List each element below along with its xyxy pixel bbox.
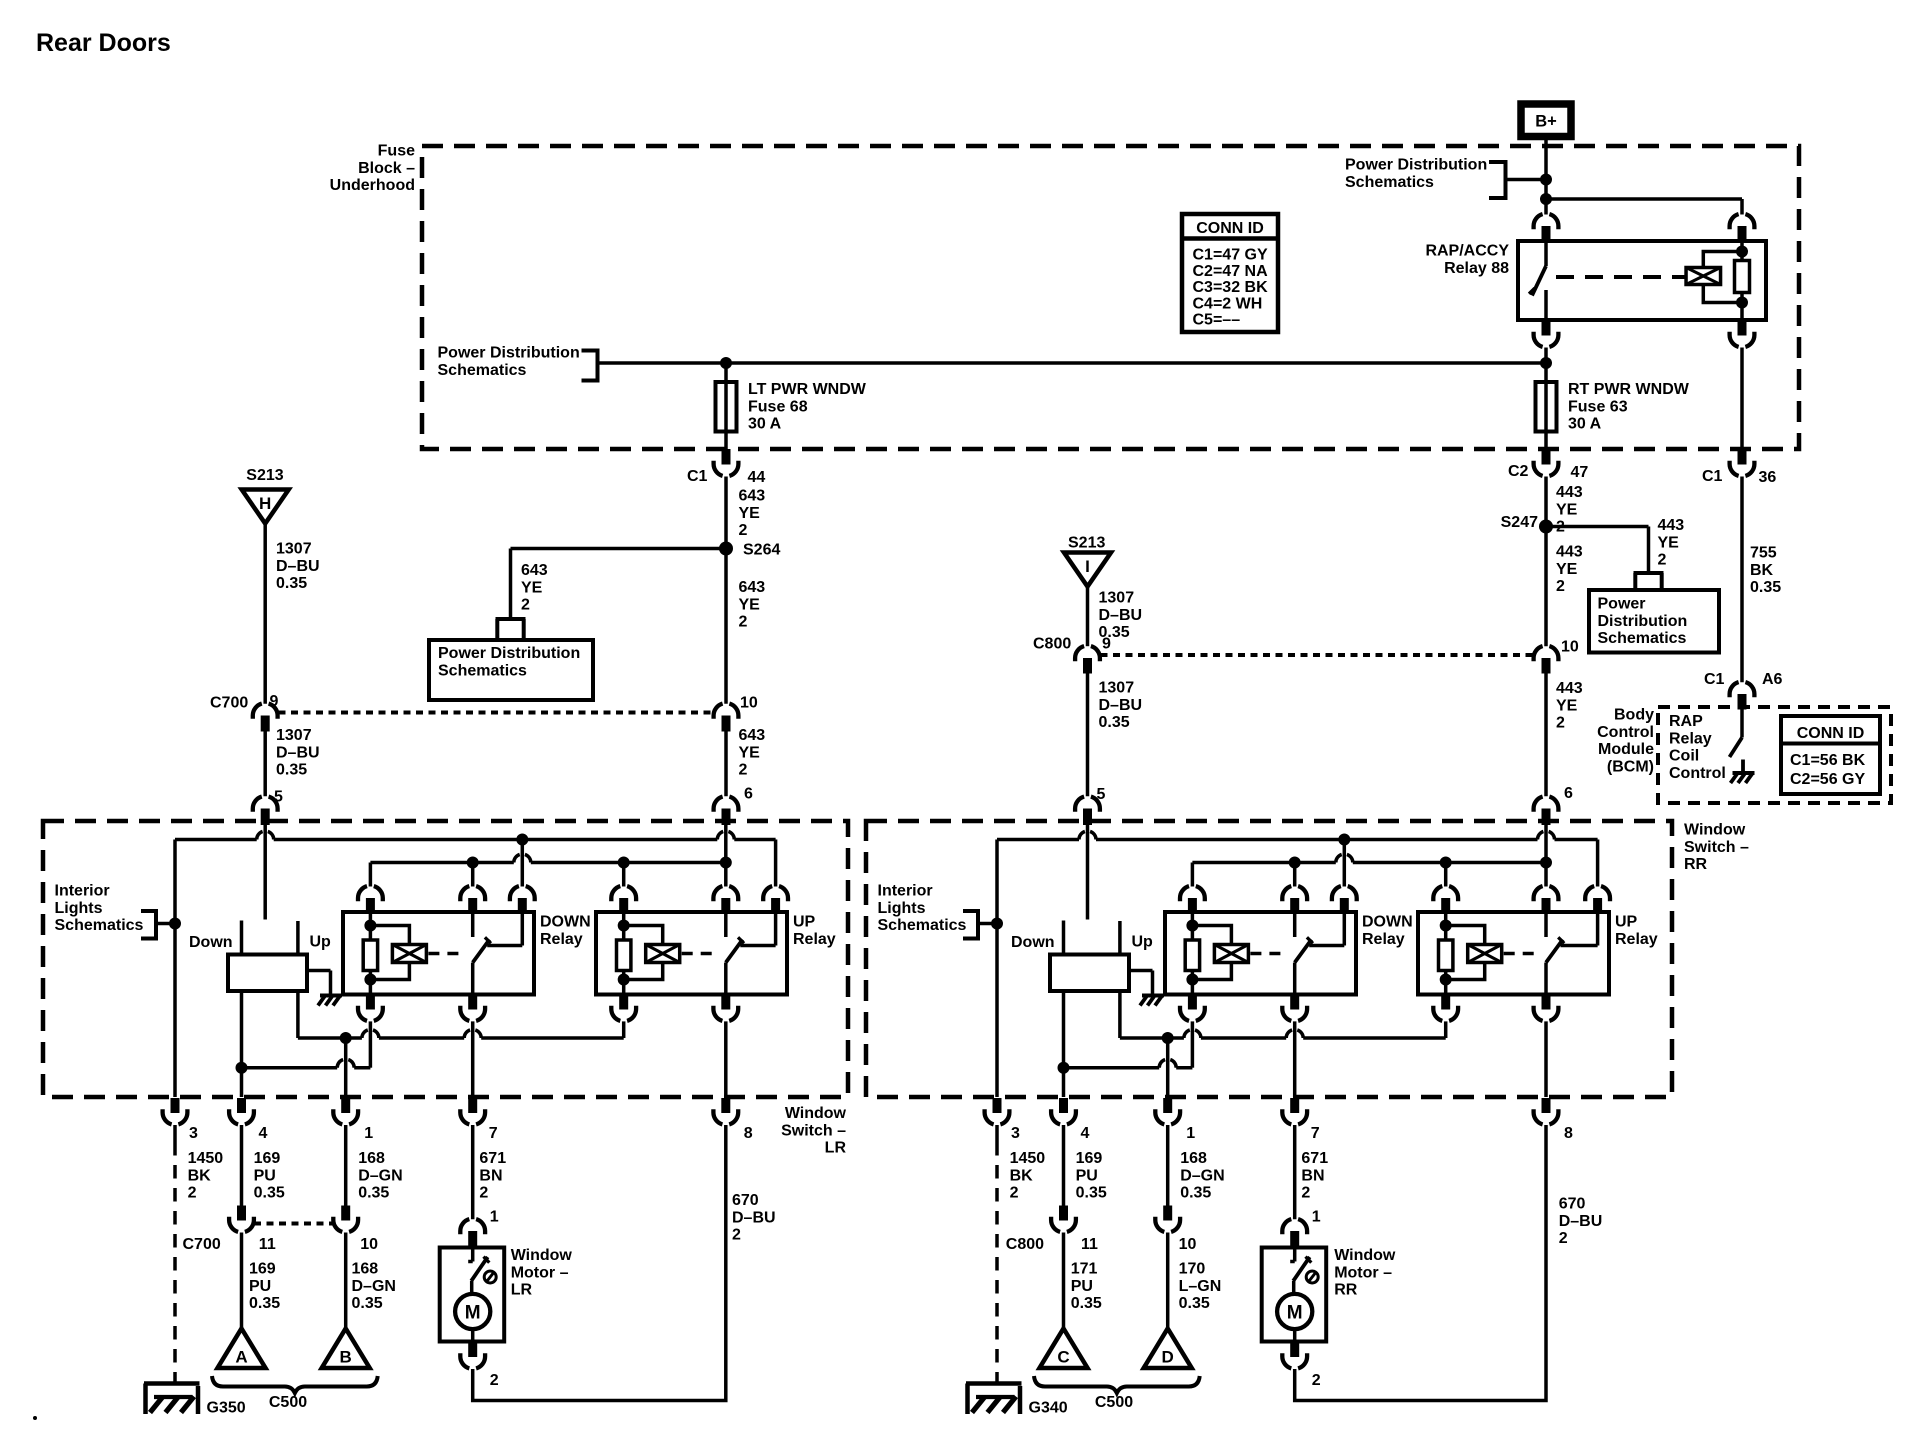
off-page tab (left power distribution) [496, 619, 526, 640]
svg-text:Lights: Lights [55, 900, 103, 917]
connector window switch LR pin 6 [714, 797, 739, 825]
label Power Distribution Schematics (top right) [1345, 157, 1487, 191]
wire to triangle D [1166, 1233, 1170, 1329]
svg-text:8: 8 [744, 1125, 753, 1142]
label 643 YE 2 (branch) [521, 562, 548, 614]
ground G340 [966, 1384, 1068, 1417]
svg-text:11: 11 [1081, 1236, 1098, 1253]
label RAP Relay Coil Control [1669, 713, 1726, 782]
svg-text:Switch –: Switch – [1684, 839, 1749, 856]
label motor pin 1 RR [1312, 1209, 1321, 1226]
svg-text:1307: 1307 [1099, 680, 1135, 697]
svg-text:1: 1 [1312, 1209, 1321, 1226]
label pin 7 LR [489, 1125, 498, 1142]
connector motor pin 1 LR [460, 1219, 485, 1247]
svg-text:Window: Window [1334, 1247, 1396, 1264]
svg-text:1450: 1450 [1010, 1150, 1046, 1167]
label pin 3 LR [189, 1125, 198, 1142]
label window switch LR [781, 1105, 846, 1157]
wire pin 7 to motor LR [471, 1125, 475, 1219]
label pin 10 lower RR [1179, 1236, 1197, 1253]
connector motor pin 2 RR [1282, 1342, 1307, 1369]
wire motor return LR [473, 1125, 726, 1401]
wire node to RAP relay coil branch [1546, 199, 1742, 215]
wire 643 YE 2 (fuse 68 to S264) [724, 477, 728, 549]
body control module dashed box [1658, 707, 1891, 803]
wire into fuse 63 [1544, 363, 1548, 449]
node junction to relay right branch [1540, 193, 1552, 205]
ground G350 [144, 1384, 246, 1417]
svg-text:171: 171 [1071, 1261, 1098, 1278]
svg-text:Relay: Relay [1615, 931, 1658, 948]
connector motor pin 1 RR [1282, 1219, 1307, 1247]
svg-text:S213: S213 [1068, 535, 1105, 552]
svg-text:Module: Module [1598, 741, 1654, 758]
label 1307 D-BU 0.35 (left lower) [276, 727, 320, 779]
svg-text:2: 2 [1556, 715, 1565, 732]
wire ground rail LR [173, 840, 177, 1098]
svg-text:47: 47 [1571, 464, 1589, 481]
svg-text:M: M [1287, 1303, 1303, 1324]
connector arc UP common LR [713, 886, 738, 912]
svg-text:Down: Down [1011, 934, 1055, 951]
svg-text:Schematics: Schematics [438, 662, 527, 679]
svg-text:670: 670 [1559, 1196, 1586, 1213]
connector arc UP coil RR [1433, 886, 1458, 912]
svg-text:2: 2 [1312, 1372, 1321, 1389]
connector arc DOWN NO RR [1332, 886, 1357, 912]
node fuse 63 feed [1540, 357, 1552, 369]
svg-text:Interior: Interior [878, 883, 933, 900]
connector window switch LR pin 5 [253, 797, 278, 825]
svg-text:168: 168 [358, 1150, 385, 1167]
svg-text:C3=32 BK: C3=32 BK [1193, 279, 1269, 296]
svg-text:2: 2 [1556, 578, 1565, 595]
stray mark [33, 1416, 37, 1420]
svg-text:Switch –: Switch – [781, 1122, 846, 1139]
connector arc DOWN NO LR [510, 886, 535, 912]
wire bracket to node [1506, 178, 1547, 182]
svg-text:Schematics: Schematics [1598, 630, 1687, 647]
splice S247 [1501, 514, 1553, 534]
svg-text:C2=56 GY: C2=56 GY [1790, 771, 1865, 788]
DOWN relay box RR [1165, 912, 1356, 995]
connector arc DOWN common RR [1282, 886, 1307, 912]
svg-text:6: 6 [1564, 785, 1573, 802]
connector arc UP coil return RR [1433, 995, 1458, 1021]
wire 443 YE 2 (fuse 63 to S247) [1544, 477, 1548, 527]
svg-text:7: 7 [489, 1125, 498, 1142]
svg-text:A6: A6 [1762, 671, 1783, 688]
svg-text:D: D [1162, 1348, 1174, 1367]
connector arc UP common RR [1534, 886, 1559, 912]
svg-text:Fuse: Fuse [378, 143, 415, 160]
wire pin 6 drop RR [1544, 825, 1548, 863]
svg-text:YE: YE [1556, 561, 1578, 578]
svg-text:C800: C800 [1033, 636, 1071, 653]
svg-text:2: 2 [1559, 1230, 1568, 1247]
wire ground rail RR [995, 840, 999, 1098]
wire power feed horizontal [598, 361, 1547, 365]
svg-text:Power Distribution: Power Distribution [1345, 157, 1487, 174]
label 670 D-BU 2 RR [1559, 1196, 1603, 1248]
connector window switch LR pin 1 [333, 1098, 358, 1124]
svg-text:643: 643 [739, 727, 766, 744]
svg-text:443: 443 [1556, 680, 1583, 697]
fuse RT PWR WNDW Fuse 63 30A [1536, 382, 1557, 432]
label pin 10 (left) [740, 695, 758, 712]
label Down RR [1011, 934, 1055, 951]
label fuse 68 [748, 381, 867, 433]
svg-text:G340: G340 [1029, 1400, 1068, 1417]
svg-text:2: 2 [739, 614, 748, 631]
motor breaker RR [1290, 1248, 1318, 1294]
svg-text:(BCM): (BCM) [1607, 758, 1654, 775]
label 443 YE 2 (below S247) [1556, 544, 1583, 596]
wire RAP coil to C1-36 [1740, 348, 1744, 450]
connector window switch LR pin 8 [713, 1098, 738, 1124]
svg-text:2: 2 [1301, 1185, 1310, 1202]
svg-text:D–BU: D–BU [732, 1209, 776, 1226]
svg-text:Fuse 68: Fuse 68 [748, 398, 808, 415]
B+ battery terminal [1521, 104, 1571, 137]
window motor RR box [1262, 1248, 1327, 1342]
svg-text:1: 1 [490, 1209, 499, 1226]
connector C700 pin 10 [714, 704, 739, 732]
node interior lights junction LR [169, 918, 181, 930]
node rail A to DOWN relay NO RR [1338, 834, 1350, 887]
svg-text:Lights: Lights [878, 900, 926, 917]
connector arc UP common out RR [1534, 995, 1559, 1021]
window switch RR dashed box [866, 821, 1672, 1097]
svg-text:11: 11 [259, 1236, 276, 1253]
svg-text:671: 671 [479, 1150, 506, 1167]
svg-text:Interior: Interior [55, 883, 110, 900]
label 670 D-BU 2 LR [732, 1192, 776, 1244]
connector window switch RR pin 5 [1075, 797, 1100, 825]
label C1 A6 [1704, 671, 1783, 688]
splice S264 [719, 542, 780, 559]
svg-text:PU: PU [254, 1167, 276, 1184]
node switch down to relay RR [1058, 1062, 1070, 1074]
svg-text:4: 4 [259, 1125, 268, 1142]
svg-text:YE: YE [739, 505, 761, 522]
UP relay box RR [1418, 912, 1609, 995]
connector window switch LR pin 7 [460, 1098, 485, 1124]
wire 443 YE 2 (to window switch RR pin 6) [1544, 670, 1548, 797]
label window switch RR [1684, 822, 1749, 874]
label pin 4 RR [1081, 1125, 1090, 1142]
connector window switch RR pin 4 [1051, 1098, 1076, 1124]
RAP relay actuation dashed link [1556, 275, 1686, 279]
label 168 D-GN 0.35 LR [358, 1150, 402, 1202]
svg-text:C5=––: C5=–– [1193, 312, 1241, 329]
svg-text:2: 2 [732, 1227, 741, 1244]
svg-text:B+: B+ [1535, 113, 1557, 131]
svg-text:643: 643 [739, 579, 766, 596]
svg-text:671: 671 [1301, 1150, 1328, 1167]
svg-text:30 A: 30 A [748, 416, 782, 433]
svg-text:1: 1 [1186, 1125, 1195, 1142]
svg-text:S264: S264 [743, 542, 780, 559]
svg-text:1307: 1307 [276, 541, 312, 558]
label C1 44 [687, 468, 765, 486]
svg-text:C700: C700 [210, 695, 248, 712]
svg-text:10: 10 [740, 695, 758, 712]
svg-text:0.35: 0.35 [1750, 579, 1781, 596]
svg-text:Window: Window [785, 1105, 847, 1122]
rocker switch ground RR [1129, 971, 1164, 1006]
node rail B UP coil LR [618, 857, 630, 887]
svg-text:RT PWR WNDW: RT PWR WNDW [1568, 381, 1690, 398]
connector window switch RR pin 6 [1534, 797, 1559, 825]
svg-text:Power Distribution: Power Distribution [438, 345, 580, 362]
window rocker switch RR [1050, 921, 1129, 992]
triangle D [1144, 1329, 1192, 1369]
svg-text:C700: C700 [183, 1236, 221, 1253]
svg-text:C500: C500 [1095, 1394, 1133, 1411]
svg-text:1: 1 [364, 1125, 373, 1142]
UP relay switch LR [726, 912, 776, 995]
interior lights bracket RR [963, 909, 997, 941]
svg-text:C1: C1 [1704, 671, 1725, 688]
connector arc UP NO LR [763, 886, 788, 912]
label 170 GN 0.35 RR [1179, 1261, 1222, 1313]
label 169 PU 0.35 LR [249, 1261, 280, 1313]
label RAP/ACCY Relay 88 [1425, 243, 1509, 277]
label 169 PU 0.35 RR [1076, 1150, 1107, 1202]
node rail B pin6 RR [1540, 857, 1552, 887]
connector arc DOWN coil return LR [358, 995, 383, 1021]
wire into fuse 68 [724, 363, 728, 449]
svg-text:2: 2 [1658, 552, 1667, 569]
svg-text:10: 10 [1179, 1236, 1197, 1253]
title Rear Doors [36, 29, 171, 57]
label C2 47 [1508, 463, 1588, 481]
svg-text:Underhood: Underhood [330, 177, 415, 194]
DOWN relay switch LR [473, 912, 523, 995]
connector C700 pin 9 [253, 704, 278, 732]
label 168 D-GN 0.35 RR [1180, 1150, 1224, 1202]
svg-text:Up: Up [1132, 934, 1154, 951]
connector C800 pin 11 [1051, 1206, 1076, 1232]
label motor pin 1 LR [490, 1209, 499, 1226]
interior lights bracket LR [141, 909, 175, 941]
svg-text:I: I [1085, 557, 1090, 576]
svg-text:C2: C2 [1508, 463, 1529, 480]
label DOWN relay RR [1362, 914, 1413, 948]
connector window switch RR pin 3 [985, 1098, 1010, 1124]
wire 1307 D-BU 0.35 (C700-9 to window switch LR pin 5) [263, 728, 267, 797]
svg-text:C500: C500 [269, 1394, 307, 1411]
triangle B [322, 1329, 370, 1369]
wire pin 1 drop RR [1166, 1038, 1170, 1097]
UP relay switch RR [1546, 912, 1598, 995]
svg-text:2: 2 [479, 1185, 488, 1202]
connector arc UP coil return LR [611, 995, 636, 1021]
svg-text:36: 36 [1759, 469, 1777, 486]
connector arc DOWN coil RR [1180, 886, 1205, 912]
svg-text:0.35: 0.35 [352, 1295, 383, 1312]
power distribution schematics box (left) [429, 640, 593, 700]
svg-text:670: 670 [732, 1192, 759, 1209]
connector arc DOWN common out LR [460, 995, 485, 1021]
svg-text:PU: PU [1076, 1167, 1098, 1184]
label fuse 63 [1568, 381, 1690, 433]
wire 643 YE 2 (S264 to C700-10) [724, 549, 728, 704]
label 443 YE 2 (above S247) [1556, 484, 1583, 536]
svg-text:9: 9 [1102, 636, 1111, 653]
connector arc UP common out LR [713, 995, 738, 1021]
svg-text:BN: BN [479, 1167, 502, 1184]
label 171 PU 0.35 RR [1071, 1261, 1102, 1313]
svg-text:Relay: Relay [793, 931, 836, 948]
svg-text:0.35: 0.35 [1099, 714, 1130, 731]
wire S264 branch to power distribution [511, 549, 727, 620]
triangle C [1040, 1329, 1088, 1369]
label 168 GN 0.35 LR [352, 1261, 396, 1313]
connector window switch LR pin 3 [163, 1098, 188, 1124]
connector C1 pin A6 [1730, 682, 1755, 709]
label pin 6 (left) [744, 786, 753, 803]
label Down LR [189, 934, 233, 951]
wire switch down output RR [1062, 991, 1066, 1097]
fuse block underhood dashed box [422, 146, 1799, 449]
connector arc DOWN coil return RR [1180, 995, 1205, 1021]
svg-text:YE: YE [1556, 501, 1578, 518]
label pin 1 LR [364, 1125, 373, 1142]
wire pin 8 drop RR [1544, 1021, 1548, 1097]
svg-text:Motor –: Motor – [511, 1264, 569, 1281]
svg-text:L–GN: L–GN [1179, 1278, 1222, 1295]
DOWN relay switch RR [1295, 912, 1345, 995]
svg-text:10: 10 [1561, 639, 1579, 656]
label C500 LR [269, 1394, 307, 1411]
node switch down to relay LR [236, 1062, 248, 1074]
brace C500 RR [1034, 1376, 1200, 1393]
node rail B DOWN common LR [467, 857, 479, 887]
label DOWN relay LR [540, 914, 591, 948]
svg-text:Schematics: Schematics [878, 917, 967, 934]
label motor pin 2 RR [1312, 1372, 1321, 1389]
svg-text:D–BU: D–BU [1559, 1213, 1603, 1230]
label C1 36 [1702, 468, 1776, 486]
DOWN relay coil RR [1185, 912, 1287, 995]
svg-text:Up: Up [310, 934, 332, 951]
svg-text:YE: YE [739, 744, 761, 761]
svg-text:Window: Window [511, 1247, 573, 1264]
svg-text:Power Distribution: Power Distribution [438, 645, 580, 662]
connector arc RAP relay bottom pin (coil) [1730, 320, 1755, 347]
power distribution schematics box (right) [1589, 590, 1719, 653]
wire pin 3 to ground LR [173, 1125, 177, 1384]
label 1307 D-BU 0.35 (left upper) [276, 541, 320, 593]
connector C2 pin 47 [1534, 449, 1559, 476]
motor M circle LR [455, 1294, 490, 1342]
DOWN relay box LR [343, 912, 534, 995]
label window motor RR [1334, 1247, 1396, 1299]
svg-text:RR: RR [1334, 1282, 1358, 1299]
svg-text:C800: C800 [1006, 1236, 1044, 1253]
svg-text:44: 44 [748, 469, 766, 486]
off-page tab (right power distribution) [1634, 573, 1664, 590]
svg-text:S247: S247 [1501, 514, 1538, 531]
svg-text:D–BU: D–BU [1099, 697, 1143, 714]
connector pin 10 (right) [1534, 646, 1559, 673]
svg-text:LT PWR WNDW: LT PWR WNDW [748, 381, 867, 398]
svg-text:Schematics: Schematics [1345, 174, 1434, 191]
wire 1307 D-BU 0.35 (S213-I to C800-9) [1086, 587, 1090, 647]
RAP/ACCY relay 88 box [1518, 241, 1766, 320]
svg-text:1307: 1307 [1099, 590, 1135, 607]
node pin 1 junction LR [340, 1032, 352, 1044]
wire pin 8 drop LR [724, 1021, 728, 1097]
connector C700 pin 11 [229, 1206, 254, 1232]
node junction below B+ [1540, 174, 1552, 186]
connector arc RAP relay bottom pin (switch) [1534, 320, 1559, 347]
wire pin 3 to ground RR [995, 1125, 999, 1384]
wire pin 4 to C800-11 [1062, 1125, 1066, 1206]
label 643 YE 2 (to pin 6) [739, 727, 766, 779]
svg-text:0.35: 0.35 [249, 1295, 280, 1312]
svg-text:Control: Control [1597, 724, 1654, 741]
svg-text:643: 643 [521, 562, 548, 579]
svg-text:YE: YE [1556, 697, 1578, 714]
svg-text:30 A: 30 A [1568, 416, 1602, 433]
svg-text:0.35: 0.35 [358, 1185, 389, 1202]
svg-text:Body: Body [1614, 707, 1654, 724]
label pin 6 (right) [1564, 785, 1573, 802]
label pin 8 LR [744, 1125, 753, 1142]
svg-text:PU: PU [249, 1278, 271, 1295]
UP relay coil LR [617, 912, 719, 995]
svg-text:2: 2 [490, 1372, 499, 1389]
svg-text:Block –: Block – [358, 160, 415, 177]
label C800 9 [1033, 636, 1111, 653]
svg-text:RR: RR [1684, 856, 1708, 873]
node rail B pin6 LR [720, 857, 732, 887]
svg-text:C2=47 NA: C2=47 NA [1193, 263, 1269, 280]
wire 1307 D-BU 0.35 (C800-9 to window switch RR pin 5) [1086, 670, 1090, 797]
svg-text:Schematics: Schematics [55, 917, 144, 934]
svg-text:2: 2 [739, 522, 748, 539]
label pin 8 RR [1564, 1125, 1573, 1142]
dashed connector line C700 [279, 711, 713, 715]
wire up-coil link LR [298, 1021, 624, 1038]
svg-text:Power: Power [1598, 596, 1646, 613]
svg-text:RAP/ACCY: RAP/ACCY [1425, 243, 1509, 260]
UP relay box LR [596, 912, 787, 995]
connector arc DOWN common LR [460, 886, 485, 912]
svg-text:1307: 1307 [276, 727, 312, 744]
svg-text:170: 170 [1179, 1261, 1206, 1278]
wire up-coil link RR [1120, 1021, 1446, 1038]
label UP relay RR [1615, 914, 1658, 948]
CONN ID table (BCM) [1781, 716, 1880, 794]
rocker switch ground LR [307, 971, 342, 1006]
svg-text:BK: BK [1750, 562, 1774, 579]
wire motor return RR [1295, 1125, 1546, 1401]
svg-text:YE: YE [1658, 534, 1680, 551]
label power distribution schematics box (left) [438, 645, 580, 679]
wire pin 1 to C700-10 [344, 1125, 348, 1206]
svg-text:Distribution: Distribution [1598, 613, 1688, 630]
label Up LR [310, 934, 332, 951]
wire pin 1 drop LR [344, 1038, 348, 1097]
svg-text:BK: BK [1010, 1167, 1034, 1184]
svg-text:0.35: 0.35 [254, 1185, 285, 1202]
label pin 5 (right) [1097, 786, 1106, 803]
